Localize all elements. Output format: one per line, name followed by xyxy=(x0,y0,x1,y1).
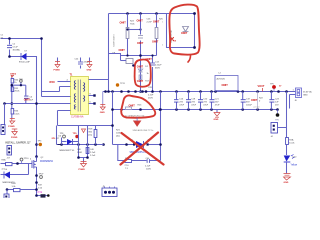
wire bottom rail xyxy=(161,109,278,111)
T1 windings xyxy=(74,80,85,112)
capacitor C23 xyxy=(269,92,279,110)
test point TP4 xyxy=(19,79,24,85)
svg-text:TP07: TP07 xyxy=(39,174,45,176)
svg-text:PGND: PGND xyxy=(79,169,86,171)
svg-text:ALT1826: ALT1826 xyxy=(217,78,226,81)
connector J5 xyxy=(102,186,117,197)
lamp branch: GND2 flag xyxy=(10,74,17,78)
node dot xyxy=(40,37,43,40)
red annotation tail xyxy=(188,56,191,63)
svg-text:INSTALL JUMPER J17: INSTALL JUMPER J17 xyxy=(5,142,31,145)
diode D4 xyxy=(1,164,29,185)
resistor R18 xyxy=(89,126,97,145)
node dot xyxy=(125,143,128,146)
svg-text:GND: GND xyxy=(284,182,289,184)
red note right xyxy=(52,138,62,145)
svg-text:25V: 25V xyxy=(275,105,279,107)
wire xyxy=(20,189,37,191)
node dot xyxy=(77,143,80,146)
red X annotation xyxy=(122,133,164,165)
red annotation oval right xyxy=(169,5,199,55)
wire anode xyxy=(113,144,135,146)
svg-text:SIMILAR/DONE TP 2x: SIMILAR/DONE TP 2x xyxy=(133,129,155,132)
node dot xyxy=(35,143,38,146)
svg-text:OMIT: OMIT xyxy=(137,66,144,69)
svg-text:GND: GND xyxy=(100,112,105,114)
node dot xyxy=(35,174,38,177)
wire xyxy=(12,83,26,109)
T1 secondary pins xyxy=(89,94,96,105)
wire xyxy=(27,57,37,159)
svg-text:53.6V 1A: 53.6V 1A xyxy=(303,91,312,94)
test point TP6 black xyxy=(275,110,280,122)
svg-text:2.2nF: 2.2nF xyxy=(147,22,153,24)
svg-text:OMIT: OMIT xyxy=(119,49,126,52)
svg-text:47uF: 47uF xyxy=(203,105,208,107)
node dot xyxy=(3,102,6,105)
node dot xyxy=(120,108,123,111)
svg-text:630V: 630V xyxy=(155,68,160,70)
wire pin3 xyxy=(37,103,71,105)
wire drop to aux xyxy=(109,54,121,61)
svg-text:TP11: TP11 xyxy=(120,83,126,85)
svg-text:OMIT: OMIT xyxy=(137,80,144,83)
node dot xyxy=(20,84,22,86)
T1 right pin top wire xyxy=(89,14,109,92)
node dot xyxy=(35,188,38,191)
wire xyxy=(11,78,13,79)
wire gnd drop xyxy=(289,98,291,109)
wire mid rail xyxy=(113,109,161,111)
wire xyxy=(12,163,32,165)
node dot xyxy=(159,108,162,111)
wire gate line xyxy=(1,163,6,165)
node dot xyxy=(6,188,9,191)
wire output rail xyxy=(103,91,296,93)
svg-text:2.2uF: 2.2uF xyxy=(90,155,96,157)
transistor Q2 FDMS86252 xyxy=(30,157,54,171)
svg-text:[1k]: [1k] xyxy=(89,135,93,137)
resistor R35 xyxy=(11,87,20,93)
wire xyxy=(10,50,21,57)
svg-text:100R: 100R xyxy=(77,152,82,154)
svg-text:25V: 25V xyxy=(215,102,219,104)
svg-text:47uF: 47uF xyxy=(215,105,220,107)
node dot xyxy=(139,90,142,93)
node dot xyxy=(111,124,114,127)
wire top rail xyxy=(109,13,195,15)
node dot xyxy=(126,28,128,30)
wire xyxy=(4,104,6,125)
svg-text:OMIT: OMIT xyxy=(153,21,160,24)
ground GND top xyxy=(87,58,93,72)
svg-text:TP10: TP10 xyxy=(24,158,30,160)
text above bean xyxy=(148,87,154,100)
node dot xyxy=(155,12,158,15)
node dot xyxy=(8,55,11,58)
svg-text:OMIT: OMIT xyxy=(137,20,144,23)
svg-text:OMIT: OMIT xyxy=(181,32,188,35)
resistor R3A xyxy=(2,159,13,171)
node dot xyxy=(11,102,14,105)
svg-text:0.1uF: 0.1uF xyxy=(13,47,19,49)
svg-text:8.5k: 8.5k xyxy=(38,191,43,194)
svg-text:0.22uF: 0.22uF xyxy=(155,65,162,67)
omit note xyxy=(113,49,126,55)
svg-text:[1k]: [1k] xyxy=(116,136,120,138)
svg-text:35V: 35V xyxy=(246,102,250,104)
svg-text:FDMS86252: FDMS86252 xyxy=(40,161,54,163)
wire bottom rail xyxy=(121,55,157,57)
resistor R19 body xyxy=(35,194,49,197)
wire pin2 xyxy=(42,96,71,98)
wire loop xyxy=(167,14,195,48)
node dot xyxy=(35,102,38,105)
diode D5 xyxy=(130,140,150,155)
svg-text:OMIT: OMIT xyxy=(146,58,153,61)
test point TP07 xyxy=(39,174,45,179)
svg-text:jumper: jumper xyxy=(253,106,261,109)
node dots rail xyxy=(104,90,288,93)
red annotation bean xyxy=(121,95,155,117)
connector J4 xyxy=(271,123,278,139)
ground GND mid xyxy=(214,110,221,122)
pin marks zener loop xyxy=(162,22,164,47)
svg-text:2PL: 2PL xyxy=(52,138,57,140)
branch R x156 xyxy=(152,14,164,56)
resistor R2A xyxy=(286,138,296,145)
svg-text:PGND: PGND xyxy=(11,137,18,139)
branch C x140 xyxy=(137,14,153,56)
svg-text:2.2uF: 2.2uF xyxy=(145,166,151,168)
svg-text:PGND: PGND xyxy=(8,126,15,128)
node dot xyxy=(159,108,162,111)
node dot xyxy=(193,46,196,49)
net label UF08 xyxy=(49,80,71,85)
ground PGND below xyxy=(79,158,87,172)
svg-text:R3B: R3B xyxy=(12,183,17,185)
branch cap x152 to rail xyxy=(146,56,163,92)
svg-text:OMIT: OMIT xyxy=(120,22,127,25)
LED D10 xyxy=(284,155,298,167)
orange test point TP3 xyxy=(37,141,43,147)
svg-text:25V: 25V xyxy=(203,102,207,104)
node dot xyxy=(159,143,162,146)
node dot xyxy=(139,28,141,30)
svg-text:47uF: 47uF xyxy=(191,105,196,107)
resistor R22 omitted xyxy=(251,92,264,110)
wire cathode xyxy=(149,144,161,146)
svg-text:2.2nF: 2.2nF xyxy=(90,152,96,154)
wire pin5 down xyxy=(58,111,113,126)
node dot xyxy=(102,143,105,146)
capacitor C40 xyxy=(77,148,96,158)
red gnd small xyxy=(82,129,86,133)
node dot xyxy=(60,143,63,146)
node dot xyxy=(139,12,142,15)
node dot xyxy=(139,108,142,111)
svg-text:250V: 250V xyxy=(148,98,153,100)
svg-text:47uF: 47uF xyxy=(179,105,184,107)
svg-text:GND: GND xyxy=(303,95,308,97)
capacitor C16 xyxy=(174,92,185,110)
node dot xyxy=(8,37,11,40)
svg-text:CU*596-NA: CU*596-NA xyxy=(71,116,84,119)
red X annotation stroke 2 xyxy=(121,133,159,165)
connector JP1 (edge) xyxy=(1,125,5,135)
capacitor C44 xyxy=(145,158,151,171)
zener D6 xyxy=(59,136,79,153)
node dot xyxy=(151,54,153,56)
wire vertical x112 xyxy=(112,92,114,145)
ground PGND top xyxy=(54,58,61,72)
svg-text:MURS160T3: MURS160T3 xyxy=(114,34,116,47)
svg-text:100V: 100V xyxy=(146,169,151,171)
svg-text:OMIT: OMIT xyxy=(137,42,144,45)
wire sense xyxy=(7,189,14,191)
svg-text:100uF: 100uF xyxy=(246,105,253,107)
node dot xyxy=(35,181,38,184)
wire xyxy=(286,145,288,156)
node dot xyxy=(86,156,89,159)
vcc filter verticals xyxy=(79,126,88,158)
ground GND secondary xyxy=(100,92,106,115)
test point TP10 xyxy=(20,158,29,164)
svg-text:GND: GND xyxy=(87,70,92,72)
node dot xyxy=(35,155,38,158)
test point red TP9 xyxy=(73,133,79,138)
svg-text:Yellow: Yellow xyxy=(291,165,298,167)
capacitor C18 xyxy=(186,92,197,110)
wire down to J4 xyxy=(286,92,288,123)
capacitor C21 xyxy=(210,92,221,110)
wire xyxy=(1,38,42,40)
svg-text:25V: 25V xyxy=(179,102,183,104)
resistor R36 xyxy=(11,109,20,116)
wire snubber loop xyxy=(118,92,161,161)
capacitor C6 omit xyxy=(24,96,34,101)
node dot xyxy=(86,143,89,146)
svg-text:EGL41-04F: EGL41-04F xyxy=(19,62,30,64)
test point TP5 red xyxy=(270,84,276,92)
net label VOUT xyxy=(258,85,265,92)
node dot xyxy=(126,12,129,15)
node dot xyxy=(139,54,142,57)
wire J4 to LED column xyxy=(278,123,287,138)
node dot xyxy=(94,143,97,146)
resistor R3B xyxy=(12,183,21,192)
wire rail y144 xyxy=(57,126,104,145)
wire xyxy=(11,115,13,119)
branch D/R x140 omitted xyxy=(137,56,150,92)
wire xyxy=(9,39,11,45)
svg-text:MMSZ4697T1G: MMSZ4697T1G xyxy=(60,150,75,152)
svg-text:2.2nF: 2.2nF xyxy=(148,95,154,97)
node dots bottom rail xyxy=(175,108,279,111)
svg-text:UF08: UF08 xyxy=(49,82,55,84)
aux sense component xyxy=(121,59,135,67)
svg-text:OMIT: OMIT xyxy=(251,99,258,102)
zener D9 xyxy=(171,27,189,43)
transformer T1 body xyxy=(70,74,89,119)
resistor omit in bean xyxy=(124,105,145,118)
svg-text:OMIT: OMIT xyxy=(222,84,229,87)
resistor R34 xyxy=(11,79,19,84)
node dot xyxy=(111,108,114,111)
svg-text:25V: 25V xyxy=(191,102,195,104)
wire xyxy=(41,39,43,97)
svg-text:PGND: PGND xyxy=(54,70,61,72)
red annotation oval middle xyxy=(135,60,151,87)
capacitor C2 xyxy=(1,35,21,52)
svg-text:305VAC: 305VAC xyxy=(13,49,21,52)
connector J2 xyxy=(290,88,313,102)
wire xyxy=(286,162,288,174)
node dot xyxy=(11,84,14,87)
svg-text:R3A: R3A xyxy=(2,159,7,162)
ground PGND jumper xyxy=(11,129,18,139)
wire pin aux xyxy=(42,87,71,92)
wire link xyxy=(128,29,141,31)
capacitor C19 xyxy=(241,92,253,110)
capacitor C24 xyxy=(75,58,91,69)
svg-text:GND: GND xyxy=(214,119,219,121)
node dot xyxy=(77,156,80,159)
connector J17 xyxy=(7,146,12,160)
svg-text:VOUT: VOUT xyxy=(258,85,265,88)
ground PGND xyxy=(8,119,15,129)
red gnd arrow below bean xyxy=(134,118,141,127)
ground GND led xyxy=(284,174,291,185)
svg-text:OMIT: OMIT xyxy=(152,41,159,44)
wire source down xyxy=(36,171,38,196)
wire node A xyxy=(5,103,37,105)
resistor label R21 xyxy=(116,130,121,138)
inductor L2 omitted xyxy=(215,73,238,92)
svg-text:R2A: R2A xyxy=(289,139,294,142)
orange test point TP11 xyxy=(116,83,126,87)
resistor R30 xyxy=(125,158,132,170)
diode D7 xyxy=(19,51,30,64)
node dot xyxy=(126,54,128,56)
test point grey TP8 xyxy=(60,133,66,138)
node dot xyxy=(16,162,19,165)
node dot xyxy=(193,12,196,15)
capacitor C20 xyxy=(198,92,209,110)
sense resistor labels xyxy=(38,185,43,195)
branch R-C x127 xyxy=(120,14,136,56)
connector J1 bottom edge xyxy=(4,190,9,199)
